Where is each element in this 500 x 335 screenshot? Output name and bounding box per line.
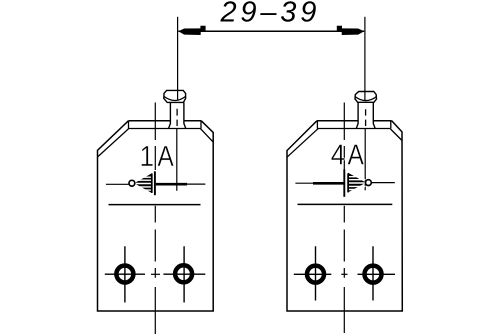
left block top edge <box>128 120 201 122</box>
right block outline <box>287 121 402 311</box>
right block chamfer tick left <box>316 121 318 129</box>
right block top edge <box>317 120 392 122</box>
hole right-1 crosshair <box>294 246 332 300</box>
right block inner chamfer right <box>391 129 403 141</box>
terminal cap waist arc left <box>164 96 186 100</box>
svg-text:A: A <box>157 140 173 172</box>
hole axis dash left block <box>151 273 160 275</box>
terminal stem left <box>169 102 186 128</box>
hole left-1 circle <box>116 266 133 283</box>
terminal cap waist arc right <box>355 97 376 101</box>
contact arrow left: thick shaft <box>156 183 187 186</box>
dimension arrowhead right <box>337 26 364 35</box>
svg-text:A: A <box>347 139 363 171</box>
left block outline <box>98 121 214 311</box>
svg-text:4: 4 <box>331 138 346 171</box>
hole axis dash right block <box>341 273 347 275</box>
contact arrow left: tip circle <box>129 180 135 186</box>
contact arrow left: cone base <box>151 173 153 193</box>
hole left-2 circle <box>175 265 192 282</box>
contact arrow left: thin shaft <box>187 183 205 185</box>
right block inner chamfer left <box>287 129 318 158</box>
left block vertical centerline (dash-dot) <box>154 103 156 335</box>
terminal axis line into block left <box>176 129 178 191</box>
terminal stem hidden centerline left <box>176 109 178 126</box>
contact arrow right: flange <box>343 169 345 197</box>
contact arrow right: cone base <box>347 173 349 192</box>
terminal stem right <box>356 102 375 128</box>
right block horizontal line <box>298 203 393 205</box>
contact arrow right: lead-out line <box>371 182 395 184</box>
terminal cap left <box>164 90 186 102</box>
contact arrow right: tip circle <box>366 180 372 186</box>
extension line left (terminal axis) <box>177 17 179 100</box>
svg-text:29–39: 29–39 <box>220 0 321 29</box>
contact arrow left: flange <box>154 171 156 195</box>
right block vertical centerline (dash-dot) <box>343 103 345 334</box>
hole right-2 crosshair <box>358 246 396 300</box>
left block horizontal line <box>109 204 201 206</box>
left block inner chamfer left <box>98 129 129 157</box>
left block chamfer tick right <box>200 121 202 129</box>
hole left-2 crosshair <box>163 246 205 302</box>
right block chamfer tick right <box>390 121 392 129</box>
left block chamfer tick left <box>128 121 130 129</box>
hole right-1 circle <box>307 266 324 283</box>
contact arrow right: hatched cone <box>348 173 366 193</box>
left block inner chamfer right <box>201 129 214 142</box>
hole right-2 circle <box>365 266 382 283</box>
contact arrow right: thin shaft <box>295 182 313 184</box>
right block band bottom line <box>317 128 390 130</box>
hole left-1 crosshair <box>105 246 145 302</box>
terminal cap right <box>355 92 377 103</box>
contact arrow right: thick shaft <box>313 182 344 185</box>
left block band bottom line <box>129 128 201 130</box>
dimension arrowhead left <box>178 26 205 35</box>
terminal stem hidden centerline right <box>365 109 367 126</box>
dimension line <box>178 30 364 32</box>
extension line right (terminal axis) <box>364 17 366 100</box>
terminal axis line into block right <box>364 129 366 191</box>
contact arrow left: lead-in line <box>106 183 130 185</box>
svg-text:1: 1 <box>140 140 155 173</box>
contact arrow left: hatched cone <box>134 173 152 193</box>
